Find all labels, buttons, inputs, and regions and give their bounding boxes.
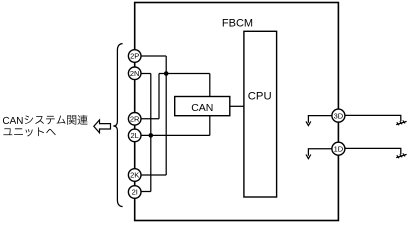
wire 1D right — [345, 148, 401, 154]
FBCM unit box — [135, 3, 339, 221]
wire 2P to junction (h) — [141, 55, 166, 57]
wire 2P drop to node A (v) — [165, 56, 167, 74]
wire 2R up to node A — [158, 74, 160, 119]
wire node A horizontal to CAN drop — [159, 73, 210, 75]
svg-text:2R: 2R — [130, 115, 140, 124]
wire CAN to CPU — [230, 105, 244, 107]
svg-text:2N: 2N — [130, 69, 140, 78]
svg-text:2I: 2I — [132, 188, 138, 197]
wire 2L horizontal to CAN rise — [141, 134, 210, 136]
svg-text:2K: 2K — [130, 171, 139, 180]
pin 2K — [128, 169, 141, 182]
pin 2I — [128, 186, 141, 199]
note text CANシステム関連 — [3, 115, 88, 125]
wire 2I horizontal — [141, 191, 151, 193]
wire 1D left — [308, 149, 331, 156]
wire 2K horizontal — [141, 174, 166, 176]
open arrow down (1D) — [306, 155, 311, 159]
pin 2P — [128, 50, 141, 63]
ground (1D) — [396, 154, 406, 157]
svg-text:2P: 2P — [130, 52, 139, 61]
wire 3D left — [308, 116, 331, 123]
pin 2R — [128, 113, 141, 126]
pin 3D — [332, 109, 345, 122]
pin 2N — [128, 67, 141, 80]
node B junction dot — [149, 133, 154, 138]
left-pointing open arrow — [94, 120, 111, 133]
pin 2L — [128, 129, 141, 142]
wire up into CAN bottom — [209, 116, 211, 136]
ground (3D) — [396, 121, 406, 124]
CPU box — [244, 31, 277, 197]
wire 2N horizontal — [141, 73, 151, 75]
wire node A down to 2K — [165, 74, 167, 176]
svg-text:3D: 3D — [334, 111, 344, 120]
wire 2N down through node B to 2I level — [150, 74, 152, 192]
wire 2R horizontal — [141, 118, 159, 120]
wire down into CAN top — [209, 74, 211, 97]
open arrow down (3D) — [306, 121, 311, 125]
CAN box — [175, 97, 230, 116]
pin 1D — [332, 142, 345, 155]
svg-text:CAN: CAN — [191, 102, 213, 114]
svg-text:2L: 2L — [131, 131, 139, 140]
note text ユニットへ — [3, 127, 55, 136]
svg-text:CPU: CPU — [248, 91, 272, 103]
svg-text:FBCM: FBCM — [222, 17, 253, 29]
svg-text:1D: 1D — [334, 144, 344, 153]
wire 3D right — [345, 115, 401, 121]
connector brace — [113, 44, 122, 207]
node A junction dot — [164, 71, 169, 76]
